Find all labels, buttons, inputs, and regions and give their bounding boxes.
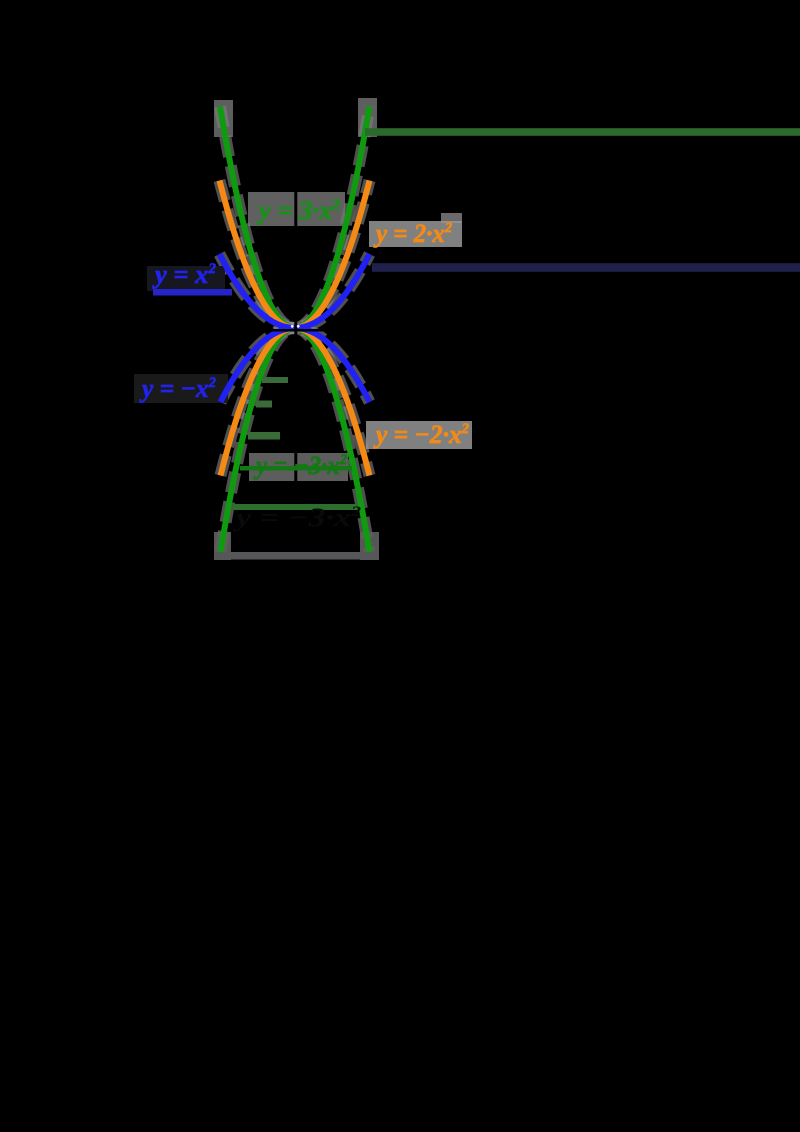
curve y=x^2 (blue, upper) (220, 254, 370, 328)
gray halo behind green top label (248, 192, 345, 226)
gray column at green lower-left tip (214, 532, 231, 560)
blue underline leader of y=x^2 label (153, 289, 232, 296)
white origin dot right (297, 325, 300, 328)
gray column at green lower-right tip (360, 532, 379, 560)
dark green bottom line 1 (233, 504, 358, 510)
gray halo behind orange bottom label (366, 421, 472, 449)
svg-text:y = −x2: y = −x2 (139, 374, 216, 403)
black y-axis cut over curves (294, 93, 297, 560)
dark halo behind blue bottom label (134, 374, 228, 403)
svg-text:y = 3·x2: y = 3·x2 (256, 196, 341, 225)
gray block at green left tip (214, 100, 233, 137)
svg-text:y = 2·x2: y = 2·x2 (373, 219, 452, 248)
gray jpeg-halo strokes under curves (220, 107, 370, 553)
gray block at green right tip (358, 98, 377, 137)
gray halo superscript block orange top (441, 213, 462, 223)
dark green bottom line 2 (221, 552, 377, 560)
curve y=-x^2 (blue, lower) (221, 328, 370, 402)
curve y=-3x^2 (green, lower) (221, 328, 370, 552)
black x-axis cut over curves (218, 329, 372, 332)
curve y=-2x^2 (orange, lower) (221, 328, 370, 476)
white origin dot left (291, 325, 294, 328)
gray halo behind orange top label (369, 221, 462, 247)
curve y=3x^2 (green, upper) (220, 107, 370, 329)
curve y=2x^2 (orange, upper) (220, 181, 370, 329)
svg-text:y = −3·x2: y = −3·x2 (232, 503, 362, 532)
dark halo behind blue top label (147, 266, 225, 291)
svg-text:y = x2: y = x2 (152, 260, 217, 289)
dark green tick 1 (262, 377, 288, 383)
svg-text:y = −2·x2: y = −2·x2 (373, 420, 469, 449)
svg-text:y = −3·x2: y = −3·x2 (253, 451, 347, 480)
dark navy leader line to right edge (372, 263, 800, 272)
dark green tick 2 (256, 401, 272, 408)
gray halo behind green bottom label (249, 453, 348, 481)
green strikethrough leader of y=-3x^2 label (240, 466, 352, 471)
dark green tick 3 (248, 432, 280, 440)
dark green leader line to right edge (top) (365, 128, 800, 136)
